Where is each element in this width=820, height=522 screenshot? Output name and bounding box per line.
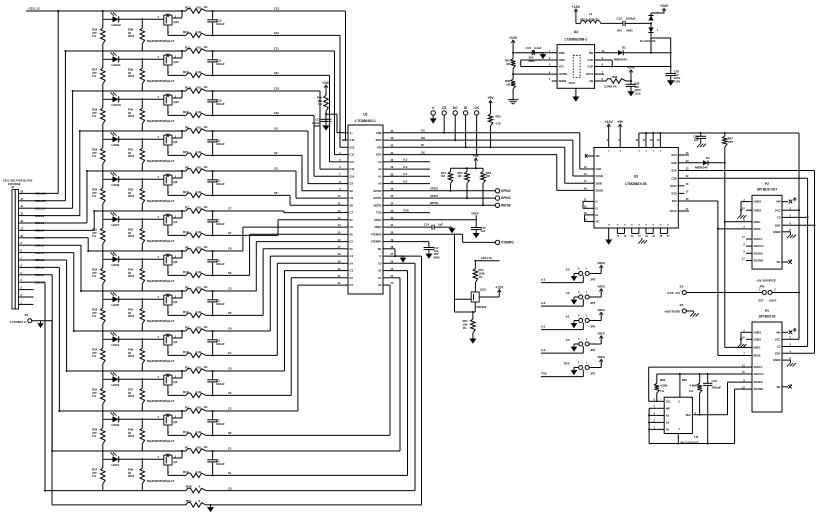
svg-text:LT3990EDDB-1: LT3990EDDB-1 <box>565 38 588 42</box>
capacitor C21 3.3uF <box>526 46 542 63</box>
svg-text:IK: IK <box>596 213 599 217</box>
wire +5V host vertical <box>798 133 800 339</box>
svg-text:CELL12: CELL12 <box>481 256 492 260</box>
ground at U2 mid <box>638 238 647 244</box>
wire S11 net <box>168 74 330 76</box>
svg-text:SPI BUS IN: SPI BUS IN <box>759 314 777 318</box>
capacitor C25 1uF 100V <box>665 69 680 83</box>
svg-text:1%: 1% <box>92 394 97 398</box>
capacitor C14 1uF <box>432 225 434 230</box>
svg-text:LED5: LED5 <box>112 303 120 307</box>
node CELL11 label <box>35 199 46 203</box>
capacitor C10 100nF <box>207 91 225 116</box>
svg-text:1uF: 1uF <box>438 223 443 227</box>
resistor R46 20 <box>128 339 145 371</box>
wire S12 to U1 <box>340 35 342 147</box>
wire LED branch <box>102 410 164 420</box>
svg-text:GPIO1: GPIO1 <box>501 196 511 200</box>
svg-text:LED1: LED1 <box>112 463 120 467</box>
svg-text:Q7: Q7 <box>173 220 177 224</box>
svg-text:C2: C2 <box>350 283 354 287</box>
svg-text:EXT: EXT <box>759 298 765 302</box>
capacitor C6 100nF <box>207 251 225 276</box>
wire C1 loop <box>389 278 400 451</box>
terminal GPIO2 <box>495 189 511 193</box>
wire U4 pin2-pin3 loop <box>521 60 552 67</box>
svg-text:16P EDGE: 16P EDGE <box>8 182 21 186</box>
svg-text:0805: 0805 <box>627 29 634 33</box>
svg-text:R6: R6 <box>185 245 189 249</box>
wire LED branch <box>102 210 164 220</box>
svg-text:G: G <box>624 225 626 227</box>
svg-text:CSB: CSB <box>671 176 677 180</box>
svg-text:DO: DO <box>421 136 425 140</box>
wire VTEMP1 <box>389 242 429 248</box>
node C9 label <box>274 127 278 131</box>
inductor L1 <box>576 12 623 23</box>
svg-text:R8: R8 <box>185 165 189 169</box>
svg-text:100: 100 <box>196 285 201 289</box>
svg-text:A.2: A.2 <box>403 165 408 169</box>
node CELL6 label <box>35 236 45 240</box>
svg-text:GND3: GND3 <box>754 200 762 204</box>
svg-text:R24: R24 <box>183 30 189 34</box>
wire P2 MISO <box>725 221 746 223</box>
svg-text:RQJ0303PGDQALT: RQJ0303PGDQALT <box>147 479 174 483</box>
svg-text:C6: C6 <box>350 225 354 229</box>
svg-text:1%: 1% <box>204 245 209 249</box>
svg-text:VREG: VREG <box>374 218 382 222</box>
capacitor C20 1uF <box>693 133 706 142</box>
resistor R10 100 <box>185 85 208 94</box>
wire VCC2 rail <box>639 132 799 142</box>
svg-text:RQJ0303PGDQALT: RQJ0303PGDQALT <box>147 319 174 323</box>
ground at E5 <box>690 311 699 317</box>
capacitor C7 100nF <box>207 211 225 236</box>
wire CK bus <box>389 151 557 156</box>
svg-text:Q10: Q10 <box>173 100 179 104</box>
wire TOS stub <box>389 208 430 212</box>
resistor R36 475 <box>92 419 105 451</box>
svg-text:R46: R46 <box>186 485 192 489</box>
wire C4 net <box>74 330 270 332</box>
svg-text:A3: A3 <box>566 268 570 272</box>
node CELL10 label <box>35 206 46 210</box>
node C8 label <box>274 167 278 171</box>
svg-text:2012: 2012 <box>128 274 135 278</box>
svg-text:14: 14 <box>20 204 23 208</box>
svg-text:R14: R14 <box>183 430 189 434</box>
power +12V left <box>509 36 518 45</box>
wire pullup rail <box>451 163 484 170</box>
svg-text:16: 16 <box>20 189 23 193</box>
wire P1 CS <box>788 346 808 348</box>
wire S2 loop <box>389 285 390 435</box>
svg-text:D1 BAT54S: D1 BAT54S <box>640 39 655 43</box>
resistor R9 100 <box>185 125 208 134</box>
resistor R43 20 <box>128 219 145 251</box>
svg-text:G: G <box>653 225 655 227</box>
svg-text:SCL: SCL <box>666 399 672 403</box>
svg-text:100: 100 <box>196 45 201 49</box>
resistor R48 20 <box>128 419 145 451</box>
wire P1 SCK <box>788 352 815 354</box>
svg-text:TOS: TOS <box>403 208 409 212</box>
wire LED branch <box>102 370 164 380</box>
svg-text:1%: 1% <box>92 474 97 478</box>
svg-text:AVCC: AVCC <box>670 209 677 213</box>
svg-text:4.99K: 4.99K <box>660 384 667 388</box>
svg-text:RQJ0303PGDQALT: RQJ0303PGDQALT <box>147 199 174 203</box>
node CELL3 label <box>35 258 45 262</box>
power +12V at L1 <box>572 5 581 14</box>
svg-text:A.2: A.2 <box>541 301 546 305</box>
svg-text:MISO: MISO <box>754 346 761 350</box>
svg-text:S1: S1 <box>378 269 382 273</box>
svg-text:Q1: Q1 <box>173 460 177 464</box>
svg-text:S11: S11 <box>350 160 355 164</box>
wire S10 to U1 <box>314 115 342 176</box>
resistor R3 100 <box>185 365 208 374</box>
node S2 label <box>228 431 232 435</box>
svg-text:GPIO2: GPIO2 <box>430 187 438 191</box>
svg-text:100nF: 100nF <box>216 422 225 426</box>
svg-text:2012: 2012 <box>128 114 135 118</box>
power VREG at JP3 <box>589 308 605 321</box>
svg-text:FB: FB <box>590 79 594 83</box>
LED LED7 <box>111 213 120 228</box>
wire CS bus <box>389 129 580 134</box>
resistor R61 0 <box>186 499 206 507</box>
node C1 label <box>228 447 232 451</box>
svg-text:SSSDA: SSSDA <box>754 380 763 384</box>
svg-text:SSECL: SSECL <box>754 237 763 241</box>
svg-text:A2: A2 <box>566 291 570 295</box>
power VREG at JP1 <box>589 355 605 368</box>
svg-text:3.3uF: 3.3uF <box>534 46 542 50</box>
ground at C21 <box>534 53 546 59</box>
node C6 label <box>228 247 232 251</box>
wire SCK out <box>684 170 814 172</box>
svg-text:RQJ0303PGDQALT: RQJ0303PGDQALT <box>147 359 174 363</box>
wire LED branch <box>102 130 164 140</box>
node S1 label <box>228 471 232 475</box>
svg-text:MOSI: MOSI <box>754 354 761 358</box>
wire VCC2 eeprom rail <box>657 373 746 397</box>
diode D4 MBR0540 <box>684 156 725 170</box>
svg-text:JP1: JP1 <box>590 371 596 375</box>
svg-text:S2: S2 <box>378 283 382 287</box>
svg-text:CK: CK <box>421 151 425 155</box>
capacitor C9 100nF <box>207 131 225 156</box>
svg-text:G: G <box>608 225 610 227</box>
test point DI <box>463 106 467 147</box>
resistor R16 3.3k <box>183 350 206 358</box>
svg-text:VCC: VCC <box>559 65 565 69</box>
jumper JP1 TOS <box>563 362 595 376</box>
svg-text:S5: S5 <box>350 247 354 251</box>
wire A.2 net <box>541 299 583 306</box>
ground at C20 <box>697 142 706 148</box>
wire VOUT stub <box>600 73 604 75</box>
svg-text:GND: GND <box>559 51 565 55</box>
svg-text:Q13: Q13 <box>480 287 486 291</box>
svg-text:R4: R4 <box>185 325 189 329</box>
wire C12 to U1 <box>342 11 346 140</box>
resistor R21 3.3k <box>183 150 206 158</box>
svg-text:S10: S10 <box>350 174 355 178</box>
svg-text:0805: 0805 <box>434 255 441 259</box>
resistor R28 475 <box>92 99 105 131</box>
svg-text:1%: 1% <box>92 434 97 438</box>
jumper JP5 A3 <box>566 268 596 282</box>
resistor R39 20 <box>128 59 145 91</box>
svg-text:1210: 1210 <box>634 92 641 96</box>
resistor R41 20 <box>128 139 145 171</box>
svg-text:2012: 2012 <box>128 74 135 78</box>
ground at C14 <box>449 227 456 233</box>
transistor Q11 RQJ0303PGDQALT <box>147 51 182 83</box>
svg-text:CS: CS <box>442 106 446 110</box>
wire SCL <box>649 400 657 402</box>
svg-text:CAP: CAP <box>587 65 593 69</box>
svg-text:S12: S12 <box>274 31 279 35</box>
svg-text:A.0: A.0 <box>403 179 408 183</box>
svg-text:SDI: SDI <box>377 145 382 149</box>
ground at C25 <box>667 79 674 86</box>
svg-text:A0: A0 <box>566 338 570 342</box>
svg-text:GPIO1: GPIO1 <box>373 196 382 200</box>
wire C2 to U1 <box>298 285 342 411</box>
svg-text:1%: 1% <box>204 445 209 449</box>
wire LED branch <box>102 450 164 460</box>
svg-text:SSECL: SSECL <box>754 365 763 369</box>
power VREG at JP2 <box>589 331 605 344</box>
svg-text:100: 100 <box>196 165 201 169</box>
svg-text:C1: C1 <box>228 447 232 451</box>
jumper JP2 A0 <box>566 338 596 352</box>
wire CELL4 <box>34 253 75 332</box>
svg-text:C6: C6 <box>228 247 232 251</box>
svg-text:R50: R50 <box>496 115 502 119</box>
svg-text:3.24M 1%: 3.24M 1% <box>604 84 617 88</box>
op-amp U1 LTC6804IG-1 <box>338 113 394 295</box>
wire CK to U2 <box>557 155 588 191</box>
svg-text:LED4: LED4 <box>112 343 120 347</box>
svg-text:ON: ON <box>596 154 600 158</box>
svg-text:R16: R16 <box>183 350 189 354</box>
resistor R12 100 <box>185 5 208 14</box>
wire C11 net <box>65 50 334 52</box>
resistor R37 475 <box>92 459 105 491</box>
capacitor C8 100nF <box>207 171 225 196</box>
svg-text:A.0: A.0 <box>541 348 546 352</box>
svg-text:WDTB: WDTB <box>430 201 438 205</box>
svg-text:V-: V- <box>379 254 382 258</box>
svg-text:2N7002: 2N7002 <box>476 305 487 309</box>
ground at R55 <box>469 337 476 344</box>
node C12 label <box>274 7 280 11</box>
svg-text:S5: S5 <box>228 311 232 315</box>
resistor R4 100 <box>185 325 208 334</box>
test point CS <box>442 106 446 133</box>
svg-text:SCK2: SCK2 <box>670 184 677 188</box>
resistor R48 1M <box>505 79 516 97</box>
svg-text:J1: J1 <box>11 185 15 189</box>
wire LED branch <box>102 170 164 180</box>
svg-text:GPIO2: GPIO2 <box>373 189 382 193</box>
resistor R63 4.99K <box>682 374 702 416</box>
ground at P2 left <box>738 213 747 219</box>
svg-text:1000pF: 1000pF <box>712 385 722 389</box>
node U2 ON pin nc <box>585 155 588 158</box>
svg-text:S6: S6 <box>228 271 232 275</box>
svg-text:LTC6804IG-1: LTC6804IG-1 <box>355 119 376 123</box>
node S8 label <box>274 191 278 195</box>
svg-text:1uF: 1uF <box>694 138 699 142</box>
resistor R35 475 <box>92 379 105 411</box>
svg-text:100: 100 <box>196 365 201 369</box>
ground at JP1 <box>571 368 579 376</box>
svg-text:MISO: MISO <box>754 220 761 224</box>
test point DO <box>453 106 458 140</box>
wire S7 net <box>168 234 278 236</box>
svg-text:1M: 1M <box>506 82 511 86</box>
power +5V at pullups <box>473 154 480 163</box>
svg-text:Q3: Q3 <box>173 380 177 384</box>
wire SCK vertical <box>814 171 816 354</box>
wire V+ feed <box>325 90 342 133</box>
svg-text:R22: R22 <box>183 110 189 114</box>
svg-text:V-: V- <box>432 106 435 110</box>
svg-text:U2: U2 <box>634 175 639 179</box>
LED LED4 <box>111 333 120 348</box>
svg-text:C1: C1 <box>378 276 382 280</box>
svg-text:R18: R18 <box>183 270 189 274</box>
svg-text:DO: DO <box>453 106 458 110</box>
svg-text:NC: NC <box>777 385 781 389</box>
resistor R7 100 <box>185 205 208 214</box>
svg-text:+24V: +24V <box>660 4 669 8</box>
svg-text:15: 15 <box>20 197 23 201</box>
power +12V at Q13 <box>495 285 504 297</box>
svg-text:S10: S10 <box>274 111 279 115</box>
svg-text:R7: R7 <box>185 205 189 209</box>
node CELL2 label <box>35 266 45 270</box>
svg-text:VREF: VREF <box>374 225 382 229</box>
wire C5 net <box>81 290 256 292</box>
svg-text:DI: DI <box>464 106 467 110</box>
svg-text:100: 100 <box>196 85 201 89</box>
capacitor C18 1000pF <box>703 374 721 444</box>
svg-text:VOUT: VOUT <box>586 72 594 76</box>
wire LED branch <box>102 290 164 300</box>
svg-text:DO1: DO1 <box>671 153 677 157</box>
svg-text:SDO: SDO <box>376 138 382 142</box>
svg-text:LED9: LED9 <box>112 143 120 147</box>
svg-text:C12: C12 <box>274 7 280 11</box>
node CELL0 label <box>35 280 45 284</box>
wire A.3 net <box>541 276 583 283</box>
node C0 label <box>228 486 232 490</box>
resistor R8 100 <box>185 165 208 174</box>
wire MISO vertical <box>724 147 726 347</box>
svg-text:Q4: Q4 <box>173 340 177 344</box>
wire S9 to U1 <box>302 155 342 190</box>
wire CELL2 <box>34 267 61 412</box>
svg-text:C11: C11 <box>350 153 355 157</box>
wire C1 net <box>52 450 400 452</box>
wire CELL3 <box>34 260 68 372</box>
svg-text:VIN: VIN <box>776 330 781 334</box>
resistor R46 0 <box>186 485 206 493</box>
ground at JP2 <box>571 344 579 352</box>
wire SDA <box>700 382 746 415</box>
svg-text:+12V: +12V <box>572 5 581 9</box>
svg-text:3.3k: 3.3k <box>196 150 202 154</box>
ground at P1 GND2 <box>787 360 796 366</box>
svg-text:JP2: JP2 <box>590 348 596 352</box>
resistor R30 475 <box>92 179 105 211</box>
svg-text:100: 100 <box>196 405 201 409</box>
svg-text:Q2: Q2 <box>173 420 177 424</box>
terminal WDTB <box>495 203 511 207</box>
svg-text:S7: S7 <box>228 231 232 235</box>
svg-text:R12: R12 <box>185 5 191 9</box>
wire P2 MOSI <box>718 228 746 230</box>
svg-text:C4: C4 <box>228 327 232 331</box>
LED LED2 <box>111 413 120 428</box>
capacitor C17 1uF <box>424 246 441 260</box>
svg-text:R61: R61 <box>186 499 192 503</box>
svg-text:3.3k: 3.3k <box>196 70 202 74</box>
wire +12V rail <box>512 45 552 59</box>
svg-text:R23: R23 <box>183 70 189 74</box>
capacitor C4 100nF <box>207 331 225 356</box>
svg-text:R62: R62 <box>660 378 666 382</box>
svg-text:CS: CS <box>421 129 425 133</box>
svg-text:P2: P2 <box>765 182 769 186</box>
node CELL12 label <box>35 192 46 196</box>
svg-text:2012: 2012 <box>128 34 135 38</box>
svg-text:100: 100 <box>196 205 201 209</box>
svg-text:+24V: +24V <box>627 66 636 70</box>
svg-text:50V: 50V <box>617 29 622 33</box>
svg-text:RQJ0303PGDQALT: RQJ0303PGDQALT <box>147 159 174 163</box>
svg-text:GND2: GND2 <box>754 337 762 341</box>
svg-text:100nF: 100nF <box>216 142 225 146</box>
node P2 VIN nc <box>789 198 797 204</box>
svg-text:RQJ0303PGDQALT: RQJ0303PGDQALT <box>147 439 174 443</box>
svg-text:1%: 1% <box>92 114 97 118</box>
svg-text:G: G <box>660 225 662 227</box>
resistor R51 1M <box>441 168 453 192</box>
wire LED branch <box>102 250 164 260</box>
LED LED10 <box>111 93 122 108</box>
svg-text:S6: S6 <box>350 232 354 236</box>
svg-text:C12: C12 <box>350 138 355 142</box>
wire CS vertical <box>807 178 809 346</box>
wire VTEMP2 divider <box>455 234 476 313</box>
transistor Q9 RQJ0303PGDQALT <box>147 131 182 163</box>
wire V- from E1 <box>51 321 53 505</box>
svg-text:GPIO2: GPIO2 <box>501 189 511 193</box>
capacitor C12 100nF <box>207 11 225 36</box>
resistor R20 3.3k <box>183 190 206 198</box>
svg-text:C10: C10 <box>350 167 355 171</box>
ground at pin27 <box>400 256 407 263</box>
svg-text:A2: A2 <box>378 167 382 171</box>
